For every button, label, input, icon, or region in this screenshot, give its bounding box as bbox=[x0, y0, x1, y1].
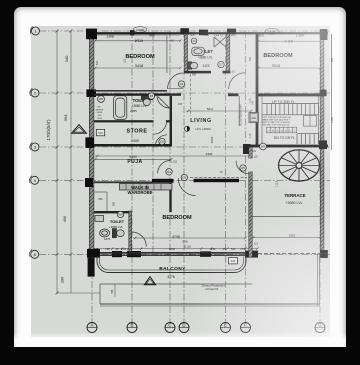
right margin tiny texts bbox=[332, 57, 334, 122]
bedroom1 right thin line bbox=[166, 36, 169, 73]
SV3 equipment box bbox=[229, 258, 238, 264]
grid bubble 4 bbox=[29, 176, 38, 185]
left dim line inner bbox=[70, 31, 72, 293]
GRID BUBBLES BOTTOM bbox=[87, 323, 325, 333]
DOOR ARCS bbox=[132, 73, 249, 247]
bed1 window inner line bbox=[97, 34, 180, 36]
column left grid3 bbox=[85, 137, 94, 148]
hall width dim bbox=[95, 155, 251, 157]
dim ticks bbox=[56, 30, 73, 295]
ROOM LABELS bbox=[104, 49, 306, 279]
left wall stub below balcony wall bbox=[88, 258, 95, 277]
bottom wall dim line bbox=[88, 248, 258, 250]
bubble D6 bbox=[148, 93, 154, 99]
wc t1 bbox=[188, 62, 192, 69]
wc t2 bbox=[141, 96, 152, 100]
bedroom3 top wall bbox=[194, 179, 240, 182]
bubble D1 bbox=[178, 81, 184, 87]
DIMENSION LINES bbox=[57, 31, 332, 297]
top outer wall bbox=[88, 32, 328, 34]
stair side rails bbox=[261, 96, 263, 144]
TOILET 1 FIXTURES bbox=[188, 37, 226, 69]
grid column A bbox=[91, 31, 93, 323]
bed1 room width dim bbox=[95, 67, 180, 69]
extra dim ticks bbox=[91, 40, 322, 250]
bubble D2 bbox=[159, 138, 165, 144]
washbasin t3 bbox=[100, 229, 110, 237]
wardrobe right wall bbox=[169, 183, 171, 212]
column top pier bbox=[199, 30, 208, 36]
bed1 window dim line bbox=[95, 40, 180, 42]
wardrobe partition bbox=[106, 192, 108, 211]
SV4 equipment box bbox=[96, 129, 104, 135]
door D4 puja arc bbox=[158, 160, 171, 173]
bubble D4 bbox=[166, 169, 172, 175]
DOOR/WINDOW BUBBLES bbox=[98, 38, 267, 218]
toilet1 inner dim bbox=[187, 64, 189, 71]
column bottom b1 bbox=[112, 251, 122, 257]
dashed line right of bottom wall bbox=[258, 253, 327, 255]
right outer wall hatched bbox=[320, 34, 324, 257]
terrace boundary line bbox=[251, 216, 321, 218]
column bottom mid bbox=[200, 251, 211, 256]
grid bubble E bbox=[221, 323, 231, 333]
living width dim bbox=[186, 110, 251, 112]
bedroom3 right wall bbox=[249, 147, 252, 257]
wardrobe bottom / toilet3 top wall bbox=[94, 211, 132, 213]
grid column G bbox=[319, 31, 321, 323]
bathtub t2 bbox=[114, 96, 127, 120]
bottom dim line bbox=[57, 292, 100, 294]
shaft inner line bbox=[238, 96, 241, 126]
CHWR tag right bbox=[265, 29, 279, 35]
tread number cells bbox=[267, 127, 297, 133]
SV1 equipment box bbox=[249, 113, 259, 123]
bottom main wall band bbox=[100, 251, 246, 254]
grid column F bbox=[245, 31, 247, 323]
grid bubble A bbox=[87, 323, 97, 333]
bottom wall dimension row bbox=[94, 247, 246, 251]
stair note boxes bbox=[304, 116, 317, 127]
toilet3 right wall bbox=[129, 211, 132, 252]
grid bubble B bbox=[127, 323, 137, 333]
SPIRAL STAIR bbox=[279, 150, 320, 181]
door toilet3 arc bbox=[132, 232, 147, 247]
column stair-terrace bbox=[243, 144, 251, 154]
lower projection outline bbox=[100, 254, 320, 306]
gray plot area of drawing bbox=[31, 26, 330, 337]
washbasin t1 bbox=[192, 47, 204, 55]
shelf t3 bbox=[95, 215, 104, 221]
grid line 2 bbox=[39, 92, 330, 94]
column top E bbox=[227, 29, 236, 35]
bubble D3 bbox=[181, 174, 187, 180]
bubble D5 bbox=[240, 165, 246, 171]
toilet1 left wall bbox=[184, 34, 187, 72]
misc dimension texts bbox=[96, 56, 296, 248]
door D5 terrace arc bbox=[236, 161, 249, 174]
grid line 3 bbox=[39, 146, 330, 148]
grid bubble 2 bbox=[30, 89, 39, 98]
bed2 window dim line bbox=[258, 40, 320, 42]
toilet2 bottom wall bbox=[94, 120, 154, 122]
bubble D toilet1 bbox=[218, 61, 224, 67]
shower t2 corner bbox=[157, 96, 169, 108]
grid bubble D bbox=[179, 323, 189, 333]
CHWR tag left bbox=[133, 27, 147, 33]
bottom paper fade bbox=[14, 332, 346, 347]
column left grid2 bbox=[86, 89, 96, 97]
BALCONY outline bbox=[97, 257, 246, 273]
grid bubble G bbox=[315, 323, 325, 333]
shower t1 bbox=[214, 37, 226, 47]
bedroom1 bottom wall bbox=[94, 90, 167, 92]
living level symbol bbox=[184, 126, 189, 131]
lighting overlay top right bbox=[31, 26, 330, 337]
grid column C bbox=[169, 31, 171, 323]
grid line 1 bbox=[39, 30, 330, 32]
projection note text bbox=[201, 284, 225, 292]
bubble W4 bbox=[117, 211, 123, 217]
door D2 store arc bbox=[155, 135, 167, 147]
door D3 bedroom3 arc bbox=[178, 178, 195, 195]
column right grid6 bbox=[320, 250, 327, 258]
stair bottom wall bbox=[249, 145, 328, 148]
grid line 4 bbox=[39, 179, 330, 181]
puja bottom / wardrobe top wall bbox=[94, 181, 152, 183]
shaft top wall bbox=[228, 93, 239, 96]
column bottom b2 bbox=[127, 251, 141, 257]
bubble W2 bbox=[260, 143, 267, 150]
column top A bbox=[86, 29, 97, 40]
TOILET 2 FIXTURES bbox=[114, 96, 170, 120]
store bottom wall bbox=[94, 144, 172, 147]
bed2 room width dim bbox=[258, 67, 320, 69]
bedroom3 width dim bbox=[133, 237, 246, 239]
stair treads upper flight bbox=[262, 104, 319, 115]
svg-text:115: 115 bbox=[332, 57, 334, 61]
window thin lines in bottom wall bbox=[100, 252, 246, 256]
TOILET 3 FIXTURES bbox=[95, 215, 124, 237]
window lines top wall bed2 bbox=[236, 32, 320, 35]
bedroom2 / stair left wall bbox=[256, 34, 259, 147]
balcony depth dim bbox=[114, 284, 116, 297]
GRID BUBBLES LEFT bbox=[29, 27, 39, 259]
stair note text block bbox=[262, 117, 291, 127]
grid bubble F bbox=[241, 323, 251, 333]
door toilet1 arc bbox=[229, 73, 245, 89]
grid column ref bbox=[152, 33, 154, 252]
dashed ref line living bbox=[190, 74, 192, 116]
toilet1 bottom wall bbox=[184, 71, 211, 74]
column right grid2 bbox=[320, 90, 327, 97]
grid bubble 1 bbox=[30, 27, 39, 35]
STAIRCASE bbox=[262, 96, 319, 144]
grid column B bbox=[131, 31, 133, 323]
column top G bbox=[320, 29, 328, 40]
top dimension texts bbox=[106, 33, 304, 44]
door head dashed bedroom3 bbox=[190, 176, 247, 178]
left dim line outer bbox=[56, 31, 58, 293]
right margin dim line bbox=[331, 34, 333, 150]
bubble 24 bbox=[191, 38, 197, 44]
column top small B bbox=[130, 30, 135, 35]
column right grid3 bbox=[319, 140, 327, 149]
column bottom F bbox=[245, 251, 258, 258]
toilet2/store right wall bbox=[170, 96, 172, 147]
grid bubble C bbox=[165, 323, 175, 333]
door D1 arc bbox=[168, 73, 184, 89]
door D6 toilet2 arc bbox=[154, 121, 167, 134]
WALLS bbox=[85, 28, 328, 276]
stair treads lower flight bbox=[297, 134, 319, 144]
lighting overlay bottom right bbox=[31, 26, 330, 337]
bubble W5 bbox=[98, 96, 105, 103]
wc t3 bbox=[112, 229, 116, 238]
bedroom2 bottom wall bbox=[256, 93, 323, 96]
wardrobe closet row bbox=[94, 184, 172, 211]
door gap in bedroom3 east wall bbox=[248, 159, 252, 172]
grid column D bbox=[183, 31, 185, 323]
terrace width dim bbox=[251, 237, 320, 239]
column left grid6 bbox=[87, 249, 100, 258]
left dimension texts bbox=[46, 55, 114, 294]
column left grid4 bbox=[85, 178, 93, 187]
grid line 6 bbox=[39, 253, 330, 255]
toilet2 top wall bbox=[94, 93, 181, 95]
grid bubble 6 bbox=[29, 250, 38, 258]
triangle marker balcony bbox=[144, 277, 155, 285]
puja width dim bbox=[95, 158, 171, 160]
column top D bbox=[180, 28, 189, 34]
triangle marker left bbox=[72, 125, 87, 134]
grid bubble 3 bbox=[30, 143, 39, 152]
toilet1 right wall bbox=[226, 34, 229, 72]
grid column E bbox=[225, 31, 227, 323]
left wall tiny text stack bbox=[96, 107, 104, 120]
svg-text:1.115: 1.115 bbox=[332, 116, 334, 122]
left outer wall hatched bbox=[89, 34, 94, 257]
